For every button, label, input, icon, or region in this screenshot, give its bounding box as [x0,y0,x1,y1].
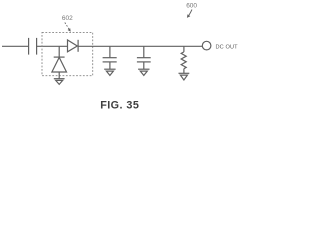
ground G4 (below R1) [179,73,190,80]
svg-text:FIG. 35: FIG. 35 [100,100,139,112]
wire input segment [2,45,28,47]
dashed box 602 [42,32,93,75]
diode D1 (series, inside box) [68,40,79,52]
arrow for label 600 [187,10,192,18]
svg-text:600: 600 [186,3,197,10]
wire from D1 to DC OUT terminal [78,45,202,47]
svg-text:DC OUT: DC OUT [216,44,239,50]
arrow for label 602 (dashed leader) [65,23,71,32]
capacitor C-in (series input capacitor) [29,38,37,55]
ground G1 (below shunt diode) [54,79,65,85]
capacitor C2 (shunt) [137,46,151,69]
ground G3 (below C2) [138,69,149,75]
wire from C-in to series diode [37,45,68,47]
svg-text:602: 602 [62,15,73,22]
resistor R1 (shunt load) [181,46,186,73]
capacitor C1 (shunt) [103,46,117,69]
ground G2 (below C1) [104,69,115,75]
diode D2 (shunt, inside box) [52,46,67,78]
terminal circle DC OUT [202,41,211,50]
